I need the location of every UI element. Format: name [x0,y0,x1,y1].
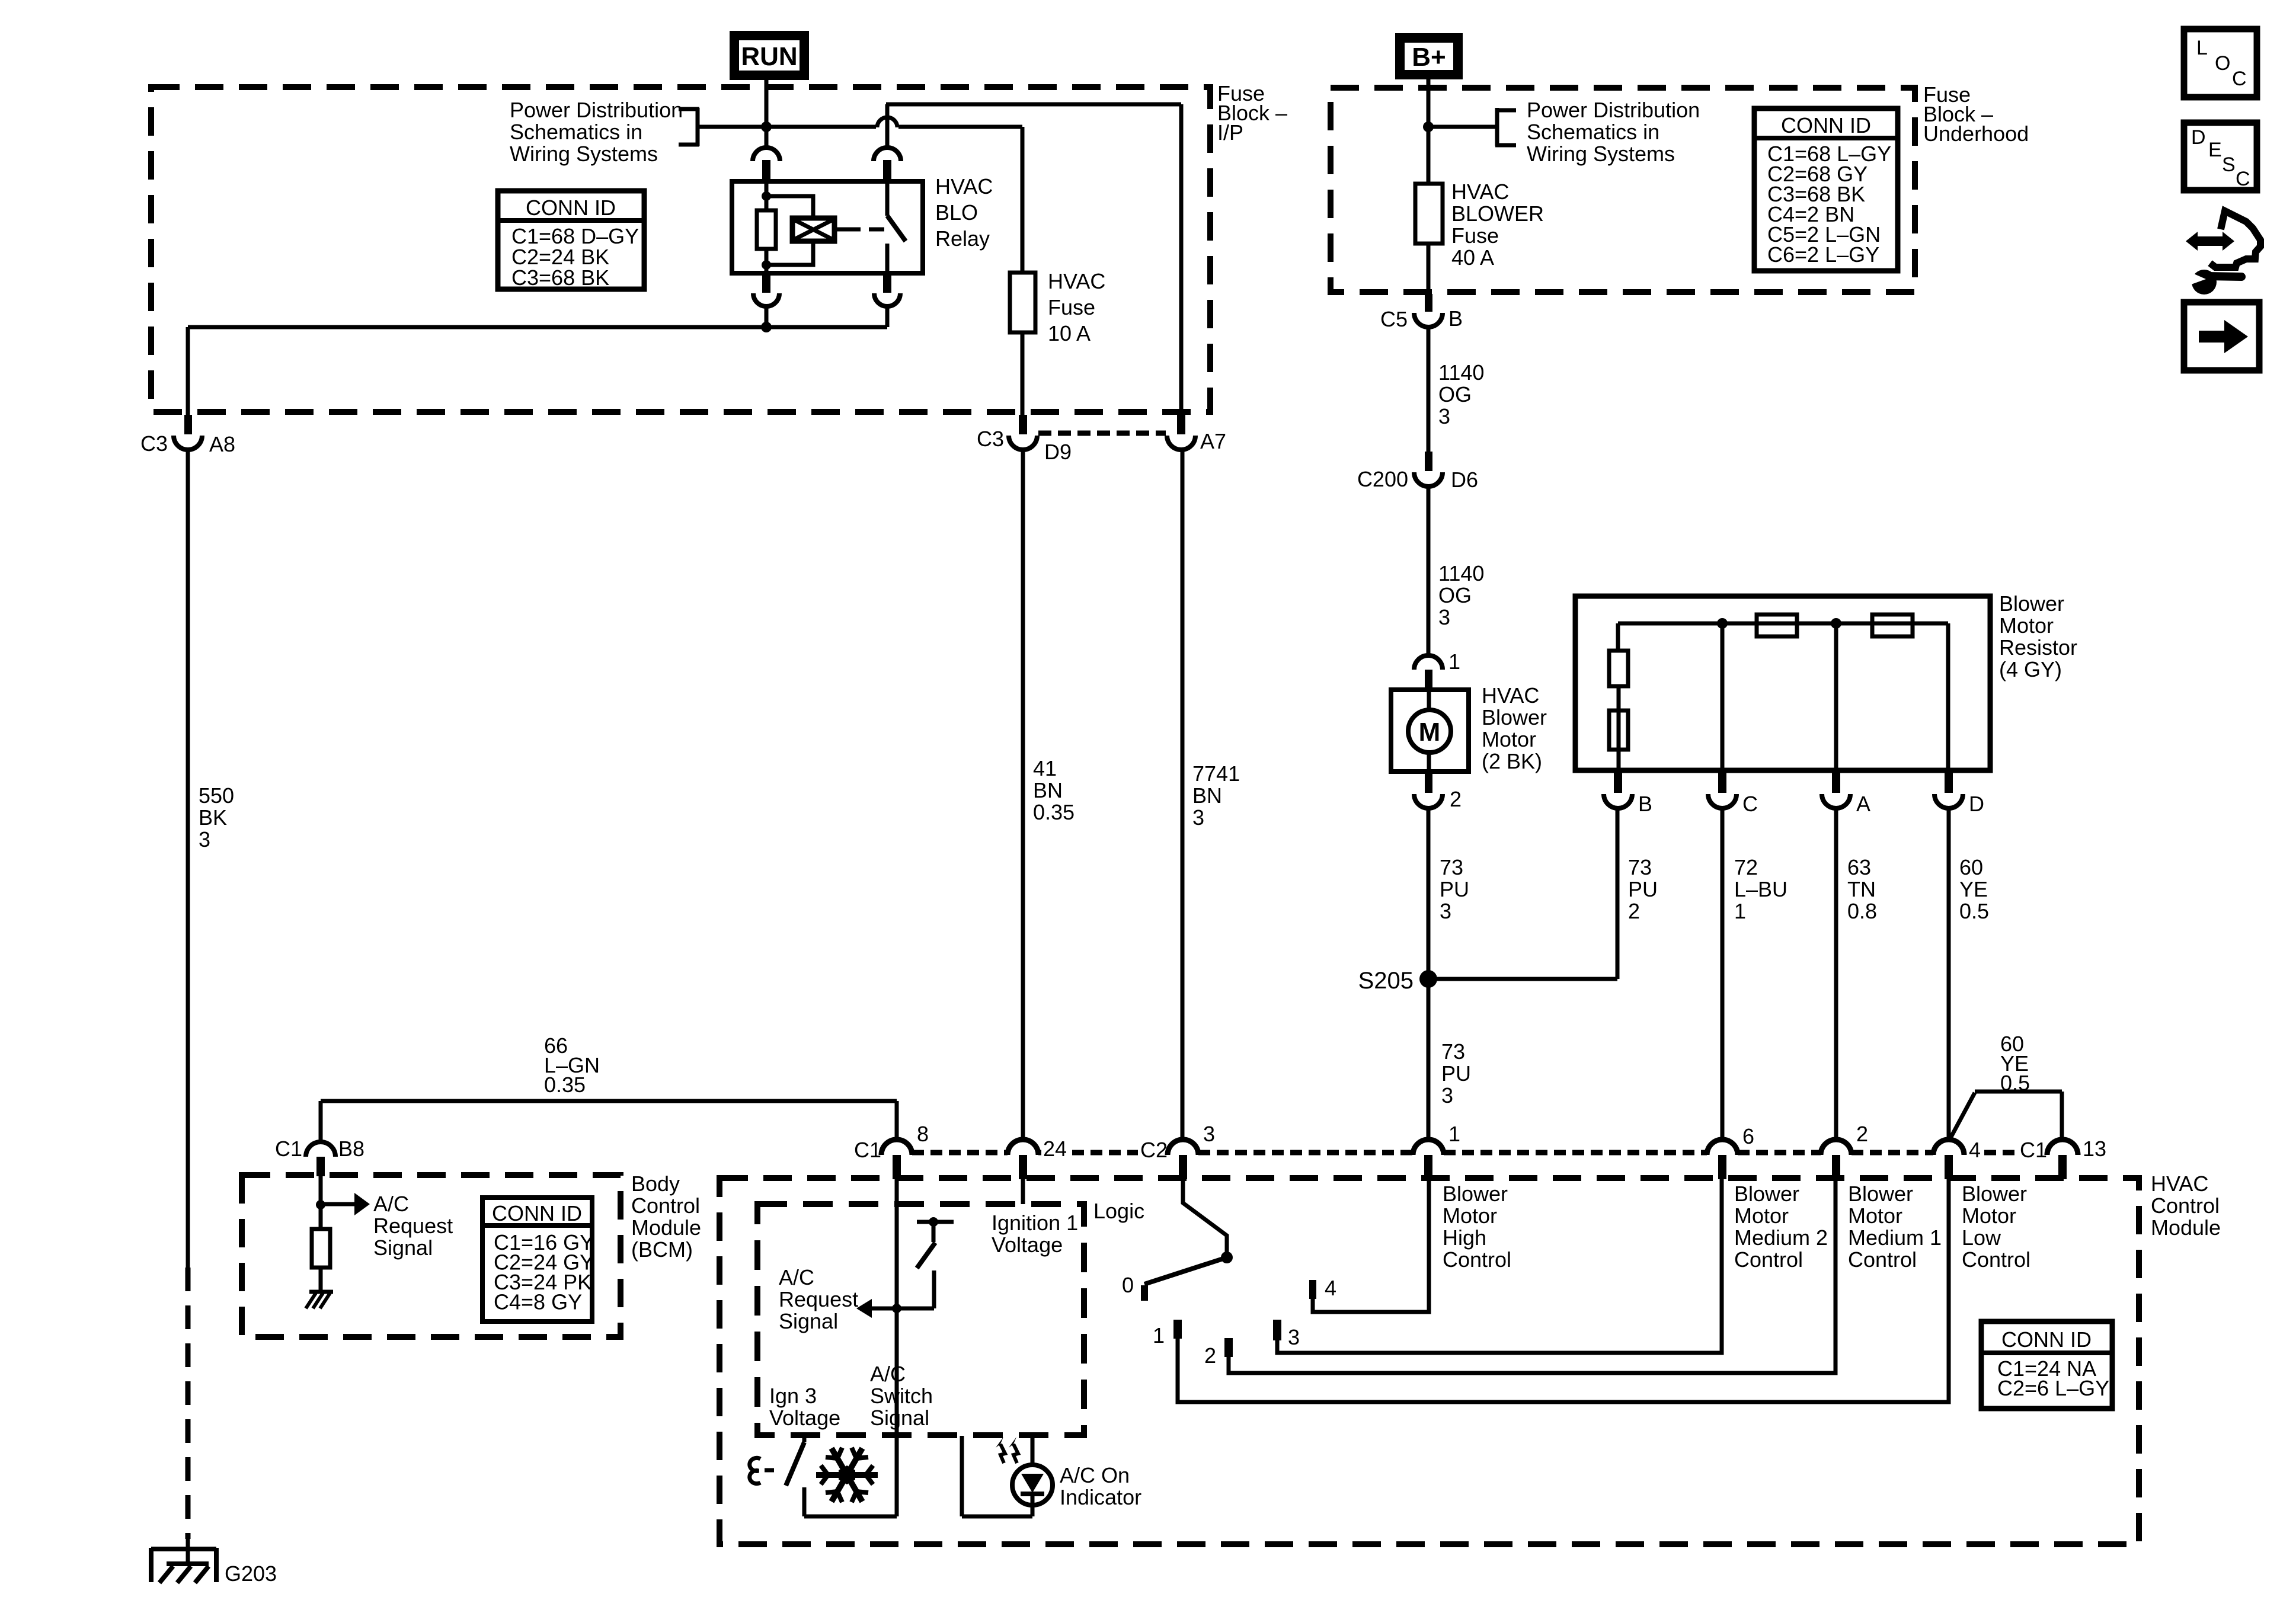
svg-text:D: D [1969,792,1984,816]
svg-text:BLOWER: BLOWER [1451,201,1544,226]
svg-text:3: 3 [1441,1083,1453,1108]
svg-text:BK: BK [199,805,227,830]
svg-text:Resistor: Resistor [1999,635,2077,660]
svg-text:CONN ID: CONN ID [526,196,616,220]
svg-text:A/C: A/C [870,1362,906,1386]
svg-text:OG: OG [1438,583,1472,607]
svg-text:(BCM): (BCM) [631,1237,693,1262]
svg-text:1140: 1140 [1438,360,1484,385]
svg-text:C3=68 BK: C3=68 BK [511,265,609,290]
svg-text:I/P: I/P [1217,120,1243,145]
svg-text:A8: A8 [209,432,235,456]
svg-text:Underhood: Underhood [1923,121,2029,146]
svg-text:C1: C1 [275,1137,302,1161]
svg-text:C: C [2232,68,2247,90]
svg-text:Motor: Motor [1999,613,2054,638]
svg-text:0.35: 0.35 [1033,800,1075,824]
svg-text:Blower: Blower [1848,1182,1913,1206]
svg-text:2: 2 [1628,899,1640,923]
svg-text:8: 8 [917,1122,929,1146]
svg-text:2: 2 [1450,787,1462,811]
svg-text:C200: C200 [1357,467,1408,491]
svg-text:60: 60 [1959,855,1983,879]
svg-text:Control: Control [2151,1193,2220,1218]
svg-text:CONN ID: CONN ID [492,1201,582,1225]
svg-text:Signal: Signal [870,1406,929,1430]
svg-text:BN: BN [1033,778,1063,802]
svg-text:Power Distribution: Power Distribution [510,98,683,122]
svg-text:Signal: Signal [779,1309,838,1333]
svg-text:Module: Module [2151,1215,2221,1240]
svg-text:Signal: Signal [373,1236,433,1260]
svg-text:0: 0 [1122,1273,1134,1297]
svg-text:Voltage: Voltage [769,1406,840,1430]
svg-text:72: 72 [1734,855,1758,879]
svg-text:Request: Request [779,1287,858,1311]
svg-text:Blower: Blower [1999,591,2064,616]
svg-text:CONN ID: CONN ID [2001,1327,2092,1352]
svg-text:B8: B8 [338,1137,364,1161]
svg-text:Control: Control [1734,1247,1803,1272]
svg-text:3: 3 [199,827,210,852]
svg-text:Body: Body [631,1172,680,1196]
svg-text:S: S [2222,153,2236,176]
svg-text:2: 2 [1204,1343,1216,1368]
svg-text:Logic: Logic [1093,1199,1144,1223]
svg-text:Control: Control [1962,1247,2030,1272]
svg-text:Blower: Blower [1962,1182,2027,1206]
svg-text:S205: S205 [1358,968,1414,994]
svg-text:Power Distribution: Power Distribution [1527,98,1700,122]
svg-text:HVAC: HVAC [935,174,993,199]
svg-text:Motor: Motor [1848,1204,1902,1228]
svg-text:HVAC: HVAC [2151,1172,2208,1196]
svg-text:3: 3 [1438,404,1450,428]
svg-text:Medium 1: Medium 1 [1848,1225,1942,1250]
svg-text:24: 24 [1043,1137,1067,1161]
svg-text:4: 4 [1325,1276,1336,1300]
svg-text:1: 1 [1448,1122,1460,1146]
svg-text:41: 41 [1033,756,1057,780]
svg-text:HVAC: HVAC [1048,269,1105,293]
svg-text:550: 550 [199,783,234,808]
svg-text:RUN: RUN [741,42,797,71]
svg-text:High: High [1443,1225,1486,1250]
svg-text:Switch: Switch [870,1384,933,1408]
svg-text:C4=8 GY: C4=8 GY [494,1290,582,1314]
svg-text:(2 BK): (2 BK) [1482,749,1542,773]
svg-text:3: 3 [1440,899,1451,923]
svg-text:Low: Low [1962,1225,2001,1250]
svg-text:A7: A7 [1200,429,1226,453]
svg-text:C6=2 L–GY: C6=2 L–GY [1767,242,1879,267]
svg-text:6: 6 [1742,1124,1754,1148]
svg-text:Motor: Motor [1962,1204,2016,1228]
svg-text:1: 1 [1448,649,1460,674]
svg-text:A/C: A/C [779,1265,814,1289]
svg-text:L: L [2196,37,2208,59]
svg-text:PU: PU [1628,877,1658,901]
svg-text:Blower: Blower [1482,705,1547,729]
svg-text:Schematics in: Schematics in [510,120,642,144]
svg-text:0.35: 0.35 [544,1073,586,1097]
svg-text:Wiring Systems: Wiring Systems [510,142,658,166]
svg-text:Control: Control [1848,1247,1917,1272]
svg-text:O: O [2215,52,2230,75]
svg-text:3: 3 [1438,605,1450,629]
svg-text:Module: Module [631,1215,701,1240]
svg-text:A: A [1856,792,1870,816]
svg-text:G203: G203 [225,1561,277,1586]
svg-text:OG: OG [1438,382,1472,407]
svg-text:Fuse: Fuse [1451,223,1499,248]
svg-text:B: B [1448,306,1463,331]
svg-text:C3: C3 [977,427,1004,451]
svg-text:B: B [1638,792,1652,816]
svg-text:Blower: Blower [1734,1182,1799,1206]
svg-text:Request: Request [373,1214,453,1238]
svg-text:73: 73 [1440,855,1463,879]
svg-text:E: E [2208,139,2222,161]
svg-text:C3: C3 [140,431,168,456]
svg-text:4: 4 [1969,1138,1981,1162]
svg-text:Control: Control [1443,1247,1511,1272]
svg-text:Motor: Motor [1482,727,1536,751]
svg-text:0.5: 0.5 [1959,899,1989,923]
svg-text:PU: PU [1440,877,1469,901]
svg-text:Ign 3: Ign 3 [769,1384,817,1408]
svg-text:0.5: 0.5 [2000,1071,2030,1095]
svg-text:C2=6 L–GY: C2=6 L–GY [1997,1376,2109,1400]
svg-text:L–BU: L–BU [1734,877,1787,901]
svg-text:B+: B+ [1412,43,1446,72]
svg-text:Fuse: Fuse [1048,295,1095,319]
svg-text:A/C: A/C [373,1192,409,1216]
svg-text:7741: 7741 [1192,761,1240,786]
svg-text:BN: BN [1192,783,1222,808]
svg-text:0.8: 0.8 [1847,899,1877,923]
svg-text:Ignition 1: Ignition 1 [992,1211,1078,1235]
svg-text:Control: Control [631,1193,700,1218]
svg-text:1140: 1140 [1438,561,1484,585]
svg-text:Relay: Relay [935,226,990,251]
svg-text:Motor: Motor [1734,1204,1789,1228]
svg-text:D6: D6 [1451,468,1478,492]
svg-text:1: 1 [1153,1323,1165,1348]
svg-text:CONN ID: CONN ID [1781,113,1871,137]
svg-text:73: 73 [1441,1039,1465,1064]
svg-text:3: 3 [1192,805,1204,830]
svg-text:C5: C5 [1380,307,1408,331]
svg-text:HVAC: HVAC [1451,180,1509,204]
svg-text:Blower: Blower [1443,1182,1508,1206]
svg-text:M: M [1419,718,1441,747]
svg-text:C2: C2 [1140,1138,1168,1162]
svg-text:3: 3 [1288,1325,1300,1349]
svg-text:Schematics in: Schematics in [1527,120,1659,144]
svg-text:C: C [1742,792,1758,816]
svg-text:(4 GY): (4 GY) [1999,657,2062,681]
svg-text:3: 3 [1203,1122,1215,1146]
svg-text:YE: YE [1959,877,1988,901]
svg-text:Medium 2: Medium 2 [1734,1225,1828,1250]
svg-text:D: D [2191,126,2206,149]
svg-text:C1: C1 [2020,1138,2047,1162]
svg-text:2: 2 [1856,1122,1868,1146]
svg-text:HVAC: HVAC [1482,683,1539,708]
svg-text:A/C On: A/C On [1060,1463,1130,1487]
svg-text:C: C [2236,168,2250,190]
svg-text:1: 1 [1734,899,1746,923]
svg-text:Indicator: Indicator [1060,1485,1141,1509]
svg-text:Voltage: Voltage [992,1233,1063,1257]
svg-text:10 A: 10 A [1048,321,1091,345]
svg-text:13: 13 [2083,1137,2106,1161]
svg-text:Wiring Systems: Wiring Systems [1527,142,1675,166]
svg-text:TN: TN [1847,877,1876,901]
svg-text:BLO: BLO [935,200,978,225]
svg-text:C1: C1 [854,1138,881,1162]
svg-text:Motor: Motor [1443,1204,1497,1228]
svg-text:73: 73 [1628,855,1652,879]
svg-text:D9: D9 [1044,440,1072,464]
svg-text:PU: PU [1441,1061,1471,1086]
svg-text:63: 63 [1847,855,1871,879]
svg-text:40 A: 40 A [1451,245,1494,270]
